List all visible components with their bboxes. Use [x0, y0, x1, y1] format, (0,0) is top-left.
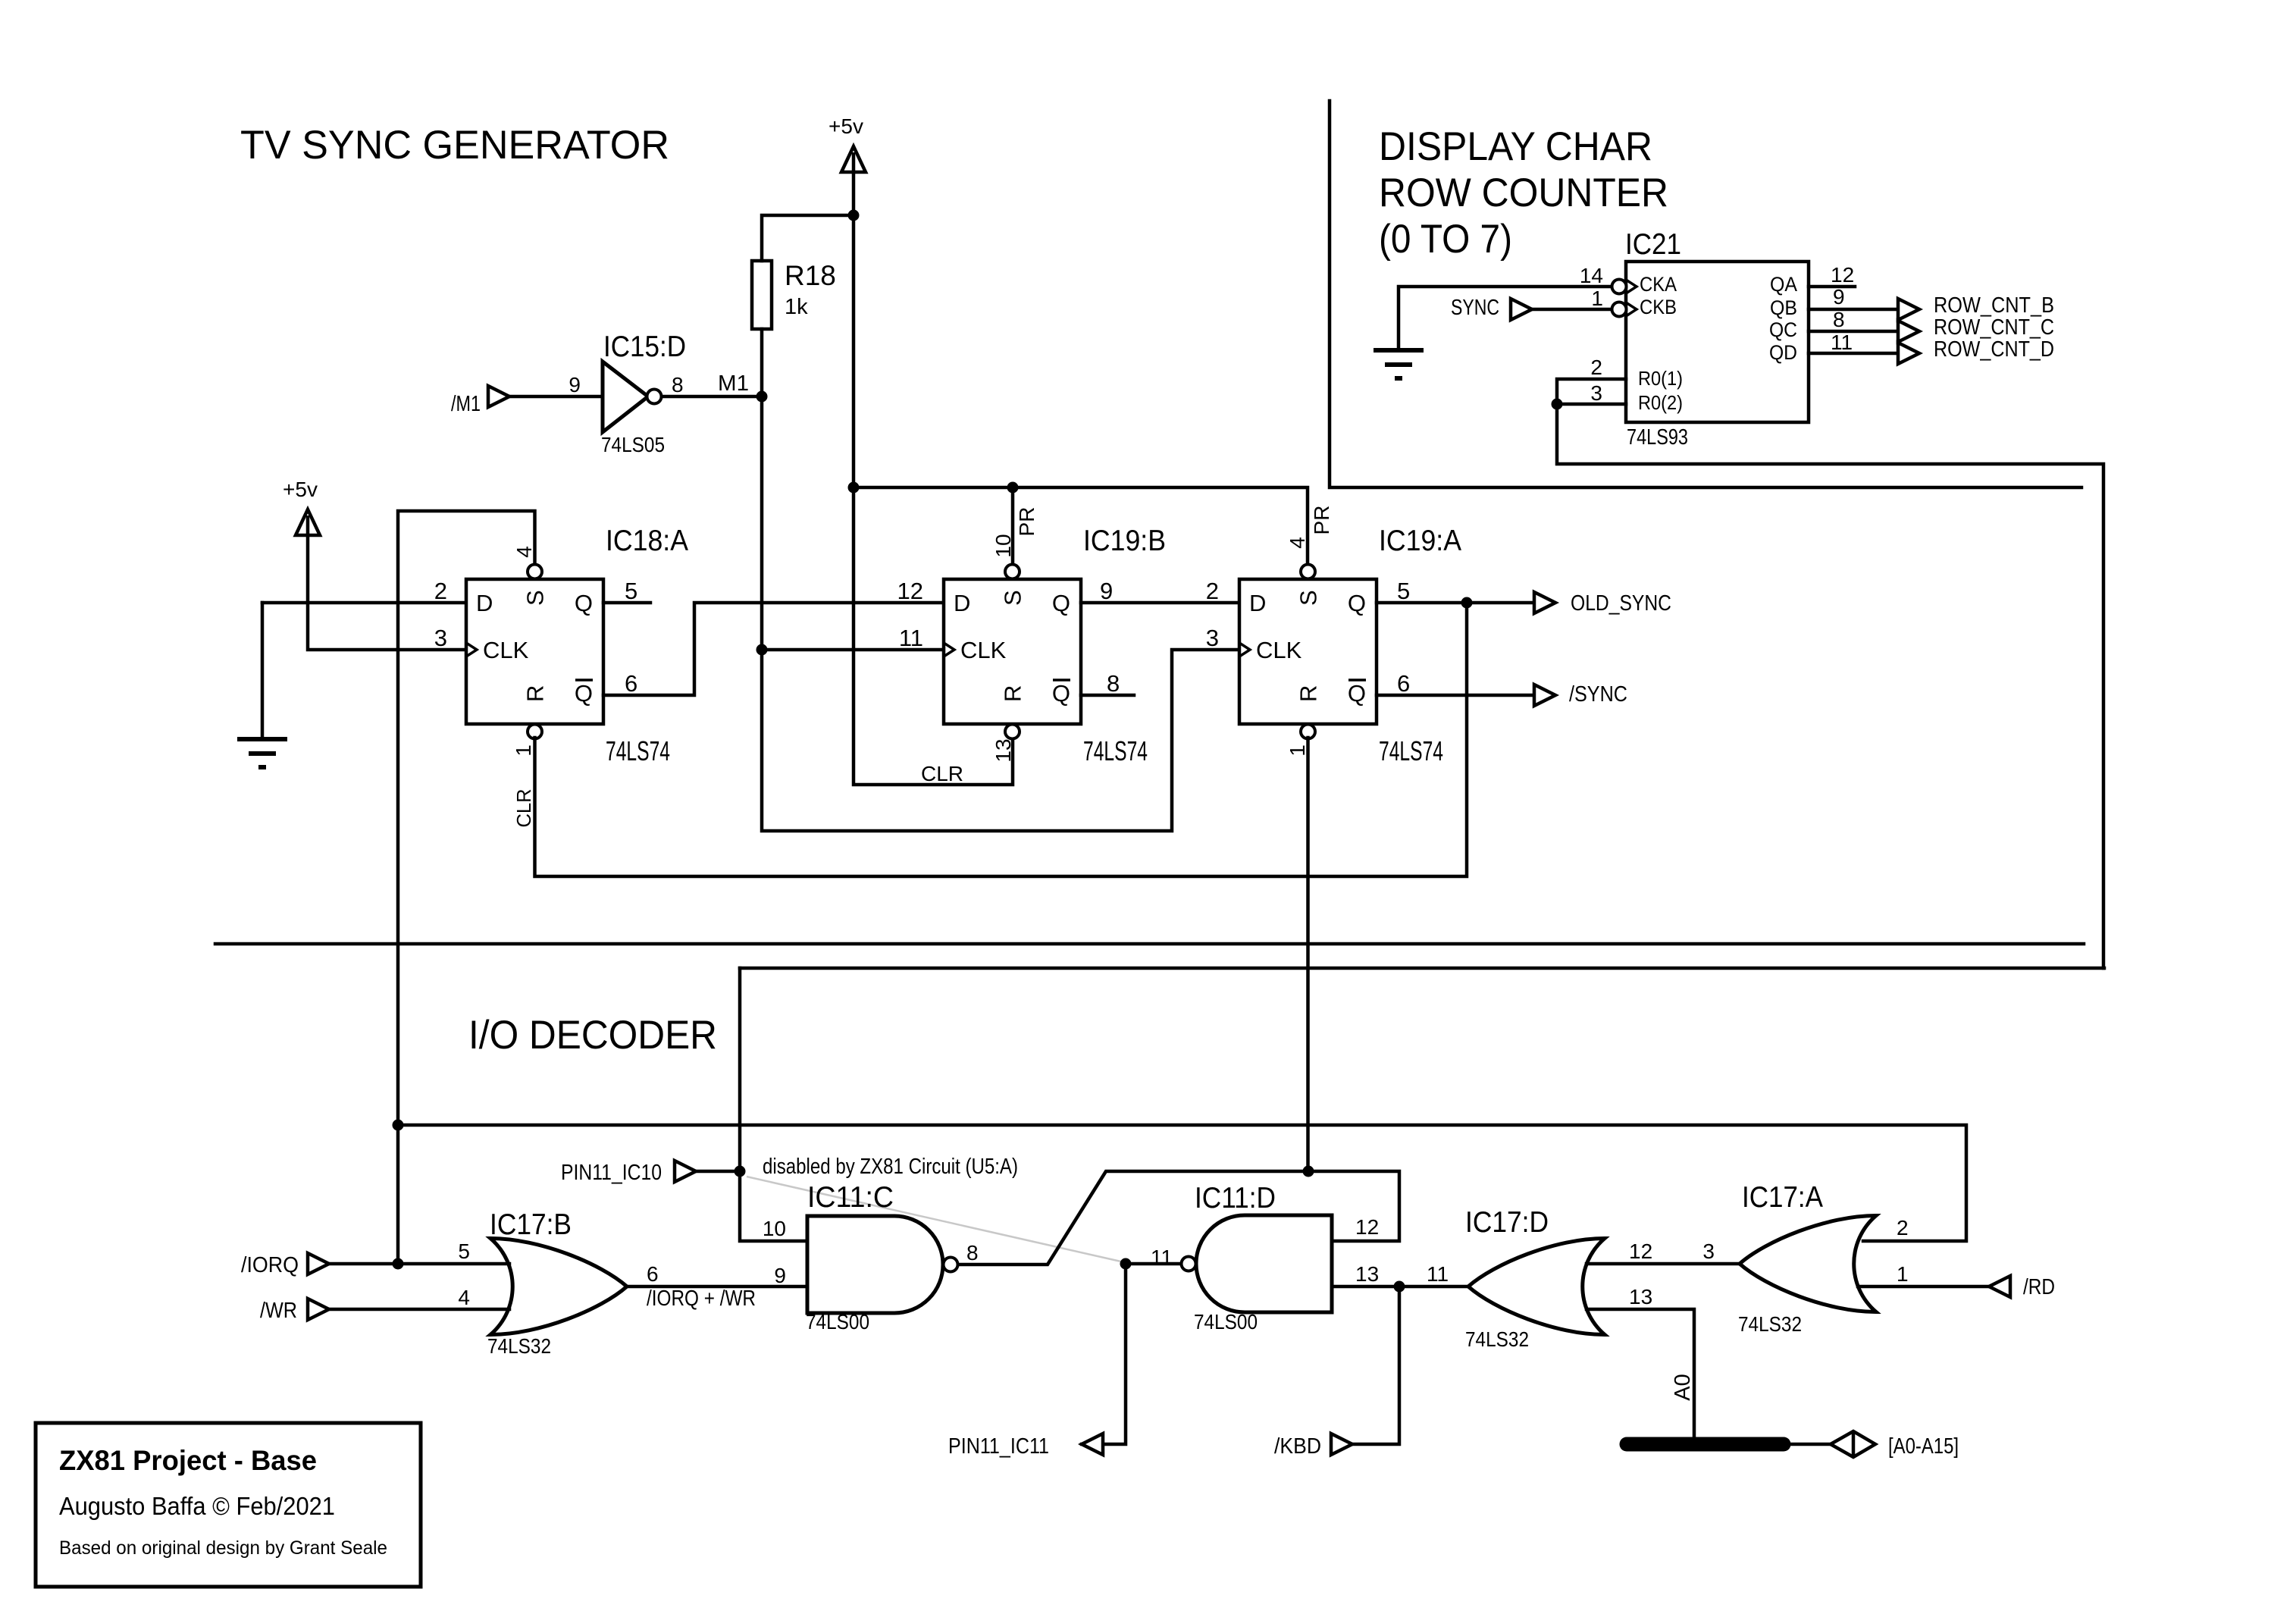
svg-text:IC17:B: IC17:B	[490, 1208, 572, 1241]
svg-text:CLK: CLK	[960, 637, 1007, 663]
wire /IORQ to IC17:B pin 5	[329, 1262, 509, 1266]
svg-text:CKB: CKB	[1640, 296, 1677, 318]
nand-gate IC11:D (74LS00, mirrored)	[1196, 1215, 1332, 1312]
svg-text:Q: Q	[1348, 590, 1366, 616]
svg-text:13: 13	[1355, 1262, 1379, 1286]
svg-text:/RD: /RD	[2023, 1275, 2055, 1299]
svg-text:11: 11	[1151, 1246, 1173, 1269]
svg-text:R18: R18	[785, 260, 836, 291]
svg-text:74LS00: 74LS00	[1194, 1310, 1258, 1334]
svg-text:[A0-A15]: [A0-A15]	[1888, 1434, 1959, 1459]
wire long line (IORQ net horizontal)	[215, 942, 2084, 946]
wire IC19:A Q to OLD_SYNC	[1377, 601, 1534, 605]
svg-text:DISPLAY CHAR: DISPLAY CHAR	[1379, 124, 1652, 169]
svg-text:D: D	[1249, 590, 1266, 616]
junction M1	[756, 391, 768, 403]
svg-text:OLD_SYNC: OLD_SYNC	[1571, 591, 1671, 616]
svg-text:3: 3	[1702, 1239, 1715, 1263]
resistor R18 1k	[752, 261, 772, 329]
svg-text:ROW_CNT_C: ROW_CNT_C	[1934, 315, 2054, 340]
svg-text:QB: QB	[1770, 296, 1797, 319]
output flag ROW_CNT_C	[1898, 321, 1919, 342]
svg-text:Q: Q	[575, 680, 593, 707]
wire IC18:A D to ground	[262, 601, 466, 605]
svg-text:13: 13	[991, 738, 1015, 762]
inverter IC15:D (74LS05)	[603, 362, 648, 432]
flip-flop IC19:A (74LS74)	[1239, 579, 1377, 724]
svg-text:Q: Q	[1348, 680, 1366, 707]
svg-text:ROW COUNTER: ROW COUNTER	[1379, 171, 1668, 215]
svg-text:11: 11	[1427, 1262, 1449, 1286]
svg-text:TV SYNC GENERATOR: TV SYNC GENERATOR	[240, 123, 669, 168]
input flag /IORQ	[308, 1253, 329, 1274]
svg-text:PIN11_IC10: PIN11_IC10	[561, 1161, 662, 1185]
svg-text:Q: Q	[1052, 680, 1070, 707]
svg-text:8: 8	[672, 373, 684, 396]
svg-text:R0(2): R0(2)	[1638, 391, 1683, 414]
svg-text:SYNC: SYNC	[1451, 296, 1499, 320]
svg-text:S: S	[1295, 590, 1322, 606]
svg-text:IC18:A: IC18:A	[606, 525, 688, 557]
svg-text:1k: 1k	[785, 295, 808, 319]
wire IC19:B Qbar stub pin 8	[1081, 694, 1134, 697]
svg-text:12: 12	[1629, 1239, 1652, 1263]
svg-text:3: 3	[1590, 381, 1602, 405]
svg-text:Q: Q	[1052, 590, 1070, 616]
wire QD to ROW_CNT_D	[1809, 352, 1898, 356]
power +5v (IC18 CLK)	[296, 509, 320, 535]
output flag OLD_SYNC	[1534, 592, 1555, 613]
or-gate IC17:B (74LS32)	[490, 1239, 627, 1335]
wire IC18:A Q stub pin 5	[603, 601, 650, 605]
wire IC21 CKA to ground	[1399, 287, 1612, 350]
svg-text:+5v: +5v	[283, 478, 318, 501]
wire /WR to IC17:B pin 4	[329, 1308, 509, 1312]
svg-text:9: 9	[569, 373, 581, 396]
svg-text:IC21: IC21	[1625, 228, 1681, 261]
wire IC19:A Qbar to /SYNC	[1377, 694, 1534, 697]
junction IC11:D out	[1120, 1258, 1132, 1270]
svg-text:Augusto Baffa © Feb/2021: Augusto Baffa © Feb/2021	[59, 1492, 335, 1520]
svg-text:6: 6	[625, 670, 637, 697]
svg-text:A0: A0	[1671, 1374, 1695, 1400]
input flag /WR	[308, 1299, 329, 1320]
svg-text:/M1: /M1	[451, 392, 481, 416]
junction IORQ riser / long line	[393, 1120, 404, 1131]
section divider frame line	[1330, 101, 2081, 487]
wire PR distribution line	[854, 487, 1308, 564]
svg-text:CLK: CLK	[483, 637, 529, 663]
wire IC11:D out 11 to PIN11_IC11	[1082, 1264, 1181, 1444]
svg-text:6: 6	[647, 1262, 659, 1286]
input flag /M1	[488, 386, 509, 407]
wire +5v rail to PR/CLR net	[854, 172, 1013, 785]
svg-text:14: 14	[1580, 264, 1603, 287]
svg-text:IC11:C: IC11:C	[807, 1181, 894, 1214]
svg-text:PR: PR	[1015, 507, 1038, 537]
bus A0 segment	[1627, 1437, 1784, 1452]
svg-text:/SYNC: /SYNC	[1569, 682, 1627, 707]
svg-text:(0 TO 7): (0 TO 7)	[1379, 217, 1512, 262]
svg-text:74LS74: 74LS74	[1379, 735, 1443, 766]
bus entry symbol [A0-A15]	[1831, 1431, 1875, 1457]
svg-text:74LS32: 74LS32	[1465, 1327, 1529, 1351]
svg-text:2: 2	[434, 578, 447, 604]
svg-text:S: S	[1000, 590, 1026, 606]
svg-text:4: 4	[1286, 537, 1309, 549]
svg-text:R0(1): R0(1)	[1638, 367, 1683, 390]
svg-text:4: 4	[458, 1286, 470, 1309]
svg-text:13: 13	[1629, 1285, 1652, 1308]
svg-text:10: 10	[763, 1217, 786, 1240]
ground (IC18 D)	[237, 737, 287, 741]
svg-text:2: 2	[1897, 1216, 1909, 1239]
svg-text:S: S	[522, 590, 549, 606]
wire R0 net long line to IC11:C pin 10	[740, 967, 2104, 970]
wire PIN11_IC10 to vertical	[696, 1170, 740, 1174]
svg-text:11: 11	[1831, 331, 1853, 354]
svg-text:1: 1	[1591, 287, 1603, 310]
svg-text:74LS32: 74LS32	[487, 1334, 551, 1358]
junction M1 / IC19:B CLK	[756, 644, 768, 656]
wire IC19:B S (PR) to +5v line	[1011, 487, 1015, 564]
svg-text:CLK: CLK	[1256, 637, 1302, 663]
svg-text:2: 2	[1590, 356, 1602, 379]
svg-text:PIN11_IC11: PIN11_IC11	[948, 1434, 1049, 1459]
wire bus to bus-entry	[1790, 1443, 1831, 1446]
svg-text:/WR: /WR	[260, 1299, 297, 1323]
svg-text:QA: QA	[1770, 273, 1797, 296]
junction /KBD	[1394, 1281, 1405, 1293]
junction +5v / PR line	[848, 482, 860, 494]
svg-text:IC11:D: IC11:D	[1195, 1182, 1276, 1214]
svg-text:QC: QC	[1769, 318, 1797, 341]
svg-text:8: 8	[966, 1241, 979, 1265]
svg-text:disabled by ZX81 Circuit (U5:A: disabled by ZX81 Circuit (U5:A)	[763, 1155, 1018, 1179]
wire SYNC to CKB	[1532, 308, 1612, 312]
svg-text:IC19:B: IC19:B	[1083, 525, 1166, 557]
svg-text:IC17:A: IC17:A	[1742, 1181, 1823, 1214]
junction IC19:A R / PIN11 line	[1303, 1166, 1314, 1177]
svg-text:Q: Q	[575, 590, 593, 616]
svg-text:/IORQ + /WR: /IORQ + /WR	[647, 1286, 756, 1311]
wire net M1 (inverter out, R18 bottom, IC19:B CLK, IC19:A CLK)	[662, 395, 762, 399]
svg-text:9: 9	[1100, 578, 1113, 604]
svg-text:CKA: CKA	[1640, 273, 1677, 296]
wire IC18:A S pin to /IORQ net (long vertical)	[398, 511, 535, 1264]
input flag /RD	[1989, 1276, 2010, 1297]
svg-text:11: 11	[899, 625, 923, 651]
svg-text:IC17:D: IC17:D	[1465, 1206, 1549, 1239]
wire QC to ROW_CNT_C	[1809, 330, 1898, 334]
svg-text:M1: M1	[718, 371, 749, 396]
wire QB to ROW_CNT_B	[1809, 308, 1898, 312]
svg-text:5: 5	[625, 578, 637, 604]
svg-text:74LS32: 74LS32	[1738, 1312, 1802, 1336]
svg-text:IC15:D: IC15:D	[603, 331, 686, 363]
svg-text:4: 4	[512, 546, 536, 558]
svg-text:3: 3	[434, 625, 447, 651]
svg-text:PR: PR	[1310, 506, 1333, 535]
output flag PIN11_IC11	[1082, 1434, 1103, 1455]
svg-text:CLR: CLR	[512, 789, 535, 828]
wire IC17:B out to IC11:C pin 9	[627, 1285, 807, 1289]
flip-flop IC18:A (74LS74)	[466, 579, 603, 724]
svg-text:1: 1	[1286, 744, 1309, 757]
disabled (grey) connection line	[747, 1177, 1124, 1262]
or-gate IC17:D (74LS32, mirrored)	[1468, 1239, 1605, 1335]
svg-text:R: R	[1295, 685, 1322, 702]
svg-text:74LS74: 74LS74	[1083, 735, 1148, 766]
svg-text:12: 12	[1831, 263, 1854, 287]
wire IC17:D pin13 to A0 bus	[1587, 1309, 1694, 1444]
nand-gate IC11:C (74LS00)	[807, 1216, 943, 1313]
output flag /SYNC	[1534, 685, 1555, 706]
svg-text:74LS74: 74LS74	[606, 735, 670, 766]
svg-text:Based on original design by Gr: Based on original design by Grant Seale	[59, 1537, 387, 1559]
wire /IORQ riser to long line and IC17:A pin 2	[398, 1125, 1966, 1241]
or-gate IC17:A (74LS32, mirrored)	[1740, 1216, 1876, 1312]
flip-flop IC19:B (74LS74)	[944, 579, 1081, 724]
svg-text:8: 8	[1107, 670, 1120, 697]
svg-text:QD: QD	[1769, 341, 1797, 364]
junction +5v / R18 top	[848, 210, 860, 221]
svg-text:3: 3	[1206, 625, 1219, 651]
wire IC19:A R down to PIN11 line	[1306, 738, 1310, 1171]
svg-text:IC19:A: IC19:A	[1379, 525, 1461, 557]
svg-text:ROW_CNT_D: ROW_CNT_D	[1934, 337, 2054, 362]
svg-text:12: 12	[1355, 1215, 1379, 1239]
ground (IC21 CKA)	[1374, 348, 1424, 353]
svg-text:/IORQ: /IORQ	[241, 1253, 299, 1277]
svg-text:1: 1	[512, 744, 535, 757]
wire IC11:D pin13 / KBD / IC17:D out	[1332, 1285, 1468, 1289]
svg-text:D: D	[954, 590, 970, 616]
svg-text:9: 9	[1833, 285, 1845, 309]
svg-text:74LS00: 74LS00	[806, 1310, 869, 1334]
svg-text:ROW_CNT_B: ROW_CNT_B	[1934, 293, 2054, 318]
wire IC19:B Q to IC19:A D	[1081, 601, 1239, 605]
wire IC18:A R to OLD_SYNC feedback (CLR)	[535, 603, 1467, 876]
svg-text:2: 2	[1206, 578, 1219, 604]
svg-text:5: 5	[458, 1239, 470, 1263]
junction OLD_SYNC feedback	[1461, 597, 1473, 609]
svg-text:ZX81 Project - Base: ZX81 Project - Base	[59, 1445, 317, 1476]
input flag PIN11_IC10	[675, 1161, 696, 1182]
wire IC21 R0(1)/R0(2) tie	[1557, 379, 2103, 968]
wire R18 top to +5v	[762, 215, 854, 261]
junction PR / IC19:B	[1007, 482, 1019, 494]
svg-text:R: R	[1000, 685, 1026, 702]
output flag ROW_CNT_B	[1898, 299, 1919, 320]
counter IC21 (74LS93)	[1626, 262, 1809, 422]
svg-text:74LS93: 74LS93	[1627, 425, 1688, 450]
output flag ROW_CNT_D	[1898, 343, 1919, 364]
title block box	[36, 1423, 421, 1587]
svg-text:+5v: +5v	[829, 114, 863, 138]
input flag /KBD	[1331, 1434, 1352, 1455]
svg-text:6: 6	[1397, 670, 1410, 697]
junction R0	[1552, 399, 1563, 410]
svg-text:8: 8	[1833, 308, 1845, 331]
junction PIN11_IC10 / IC11:C input	[735, 1166, 746, 1177]
svg-text:R: R	[522, 685, 549, 702]
svg-text:1: 1	[1897, 1262, 1909, 1286]
svg-text:9: 9	[774, 1264, 786, 1287]
wire IC11:C out 8 to PIN11 line (diagonal)	[958, 1171, 1399, 1265]
wire +5v to IC18:A CLK	[308, 535, 466, 650]
wire IC17:A pin1 to /RD	[1858, 1285, 1989, 1289]
wire IC17:A out to IC17:D pin 12	[1587, 1262, 1740, 1266]
power +5v (R18 pull-up)	[841, 146, 866, 172]
junction /IORQ	[393, 1258, 404, 1270]
wire IC18:A Qbar to IC19:B D	[603, 603, 944, 695]
wire /M1 to inverter	[509, 395, 603, 399]
svg-text:5: 5	[1397, 578, 1410, 604]
input flag SYNC	[1511, 299, 1532, 320]
svg-text:12: 12	[897, 578, 923, 604]
wire IC21 QA stub pin 12	[1809, 285, 1855, 289]
svg-text:74LS05: 74LS05	[601, 433, 665, 456]
svg-text:I/O DECODER: I/O DECODER	[468, 1013, 717, 1058]
svg-text:CLR: CLR	[921, 762, 963, 785]
svg-text:D: D	[476, 590, 493, 616]
svg-text:/KBD: /KBD	[1274, 1434, 1321, 1459]
